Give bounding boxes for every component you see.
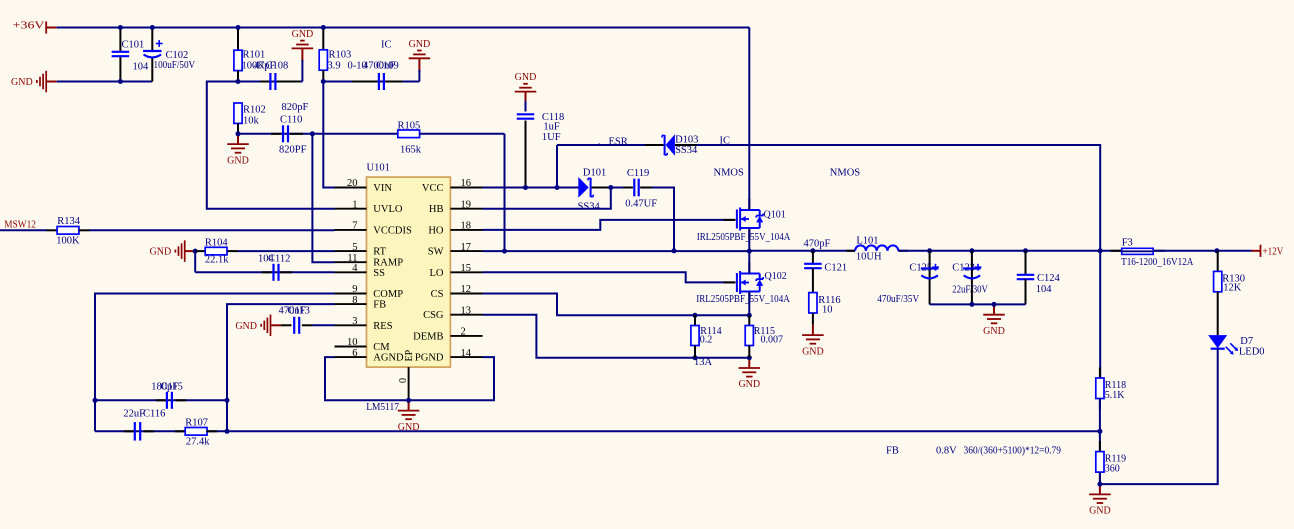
resistor R103 (319, 28, 351, 82)
wire C115 net (95, 399, 227, 401)
power port +12V (1252, 245, 1284, 258)
svg-text:T16-1200_16V12A: T16-1200_16V12A (1121, 257, 1194, 268)
junction (93, 398, 230, 434)
resistor R107 (175, 418, 217, 448)
wire Q102 drain (748, 251, 750, 273)
svg-text:22uF: 22uF (123, 409, 145, 420)
capacitor C116 (123, 409, 165, 441)
wire MSW12 (0, 229, 57, 231)
svg-text:HB: HB (429, 204, 444, 215)
junction (693, 355, 752, 360)
junction (310, 131, 315, 136)
svg-text:6: 6 (352, 348, 357, 359)
junction (118, 25, 123, 84)
label IC 2 (720, 136, 731, 147)
svg-text:10: 10 (822, 305, 833, 316)
capacitor C118 (517, 112, 565, 187)
svg-text:C108: C108 (266, 61, 289, 72)
svg-text:2: 2 (461, 327, 466, 338)
svg-text:C121: C121 (824, 263, 847, 274)
svg-text:UVLO: UVLO (373, 204, 403, 215)
svg-text:17: 17 (461, 242, 472, 253)
svg-text:IRL2505PBF_55V_104A: IRL2505PBF_55V_104A (697, 232, 791, 243)
svg-text:18: 18 (461, 221, 472, 232)
svg-text:AGND: AGND (373, 353, 404, 364)
ground GND (C118) inverted (515, 72, 537, 111)
svg-text:470pF: 470pF (804, 239, 831, 250)
wire R105 to SW (504, 134, 506, 251)
svg-text:0.47UF: 0.47UF (625, 199, 657, 210)
junction (236, 25, 241, 84)
svg-text:C101: C101 (122, 40, 145, 51)
svg-text:104: 104 (133, 61, 150, 72)
svg-text:GND: GND (409, 39, 431, 50)
wire FB (227, 304, 335, 431)
svg-text:GND: GND (802, 346, 824, 357)
svg-text:22uF/30V: 22uF/30V (952, 284, 988, 295)
svg-text:R104: R104 (205, 237, 229, 248)
svg-text:CS: CS (431, 289, 444, 300)
ground GND (R102) (227, 134, 249, 167)
svg-text:8: 8 (352, 295, 357, 306)
wire CSG (483, 315, 750, 358)
wire RT (238, 250, 335, 252)
capacitor C115 (151, 382, 186, 409)
svg-text:470uF/35V: 470uF/35V (877, 294, 919, 305)
svg-text:5.1K: 5.1K (1105, 390, 1126, 401)
U101 left pins (335, 178, 412, 363)
svg-text:13: 13 (461, 305, 472, 316)
svg-text:PGND: PGND (415, 353, 444, 364)
svg-text:820PF: 820PF (279, 145, 307, 156)
svg-text:GND: GND (235, 321, 257, 332)
capacitor C108 (254, 61, 301, 91)
svg-text:12: 12 (461, 284, 472, 295)
svg-text:GND: GND (227, 155, 249, 166)
svg-text:7: 7 (352, 221, 357, 232)
label FB calc (886, 446, 1061, 457)
svg-text:DEMB: DEMB (413, 331, 443, 342)
transistor Q101 (697, 199, 791, 244)
junction dots FB (1097, 429, 1102, 434)
label 470pF (804, 239, 831, 250)
svg-text:19: 19 (461, 199, 472, 210)
junction (1098, 248, 1220, 253)
resistor R130 (1214, 251, 1245, 335)
wire AGND-EP-PGND (325, 357, 494, 400)
svg-text:D103: D103 (675, 134, 698, 145)
U101 EP pin (398, 349, 415, 400)
svg-text:C113: C113 (288, 305, 310, 316)
svg-text:R105: R105 (398, 121, 421, 132)
capacitor C112 (258, 254, 292, 281)
svg-text:GND: GND (398, 422, 420, 433)
wire SW to L101 (749, 250, 855, 252)
wire COMP (95, 294, 335, 432)
svg-text:27.4k: 27.4k (186, 437, 210, 448)
svg-text:360: 360 (1105, 464, 1120, 475)
svg-text:820pF: 820pF (282, 102, 309, 113)
svg-text:NMOS: NMOS (714, 168, 745, 179)
capacitor C102 (143, 28, 195, 82)
wire VCC (483, 187, 580, 189)
wire C108 net (238, 81, 302, 83)
svg-text:D101: D101 (583, 167, 606, 178)
svg-text:IC: IC (381, 40, 392, 51)
svg-text:16: 16 (461, 178, 472, 189)
wire L101 to F3 (898, 250, 1121, 252)
inductor L101 (846, 235, 908, 262)
svg-text:CSG: CSG (423, 310, 444, 321)
svg-text:10k: 10k (243, 115, 260, 126)
svg-text:0: 0 (398, 378, 409, 383)
svg-text:U101: U101 (367, 163, 390, 174)
resistor R119 (1096, 441, 1126, 482)
ground GND (C109) inverted (409, 39, 431, 82)
label NMOS 2 (830, 168, 861, 179)
svg-text:Q101: Q101 (764, 209, 786, 220)
svg-text:FB: FB (373, 300, 386, 311)
svg-text:FB: FB (886, 446, 899, 457)
svg-text:C125: C125 (909, 263, 932, 274)
svg-text:5: 5 (352, 242, 357, 253)
svg-text:NMOS: NMOS (830, 168, 861, 179)
wire LO (483, 272, 736, 282)
wire D101-HB node (592, 185, 623, 190)
svg-text:R103: R103 (329, 50, 352, 61)
junction (693, 313, 752, 318)
wire R118-R119 (1099, 399, 1101, 452)
diode D103 (662, 134, 698, 156)
svg-text:GND: GND (1089, 506, 1111, 517)
ground GND (R119) (1089, 484, 1111, 516)
resistor R118 (1096, 368, 1126, 410)
wire Q101 source (748, 228, 750, 251)
resistor R105 (398, 121, 505, 156)
svg-text:3.9: 3.9 (328, 61, 341, 72)
wire F3 to +12V (1153, 250, 1251, 252)
svg-text:R102: R102 (243, 105, 266, 116)
svg-text:104: 104 (1036, 284, 1053, 295)
svg-text:+12V: +12V (1263, 247, 1284, 258)
svg-text:C112: C112 (268, 254, 290, 265)
svg-text:VCC: VCC (422, 183, 444, 194)
capacitor C113 (279, 305, 313, 333)
diode D101 (578, 167, 607, 212)
wire cap bank bottom (930, 303, 1026, 305)
wire CS (483, 294, 750, 316)
svg-text:22.1k: 22.1k (205, 255, 229, 266)
svg-text:GND: GND (11, 77, 33, 88)
svg-text:C119: C119 (627, 168, 649, 179)
LED D7 (1208, 335, 1264, 358)
wire ESR to output (675, 145, 1100, 251)
resistor R134 (56, 216, 81, 247)
svg-text:4: 4 (352, 263, 358, 274)
ground port GND (C113) (235, 315, 281, 337)
svg-text:9: 9 (352, 284, 357, 295)
svg-text:GND: GND (983, 326, 1005, 337)
capacitor C110 (271, 102, 309, 156)
svg-text:GND: GND (515, 72, 537, 83)
wire input gnd (57, 81, 153, 83)
ground GND (R115) (738, 358, 760, 391)
svg-text:14: 14 (461, 348, 472, 359)
junction (406, 398, 411, 403)
svg-text:GND: GND (292, 29, 314, 40)
svg-text:F3: F3 (1122, 238, 1133, 249)
wire SW (483, 250, 750, 252)
junction (321, 25, 326, 84)
ground port GND (R104) (150, 240, 196, 262)
wire R119 to GND (1099, 472, 1101, 484)
svg-text:SW: SW (428, 247, 444, 258)
svg-text:1UF: 1UF (542, 132, 561, 143)
svg-text:SS: SS (373, 268, 385, 279)
transistor Q102 (696, 262, 790, 305)
wire RAMP (312, 134, 334, 262)
svg-text:MSW12: MSW12 (4, 219, 36, 230)
svg-text:LED0: LED0 (1239, 347, 1265, 358)
fuse F3 (1111, 238, 1194, 268)
svg-text:R134: R134 (57, 216, 81, 227)
label ESR (598, 136, 628, 147)
net label MSW12 (4, 219, 36, 230)
capacitor C125 (877, 251, 939, 305)
capacitor C119 (623, 168, 657, 210)
svg-text:360/(360+5100)*12=0.79: 360/(360+5100)*12=0.79 (964, 446, 1062, 457)
junction (969, 302, 996, 307)
ground GND (R116) (802, 313, 824, 357)
svg-text:C124: C124 (1037, 273, 1061, 284)
svg-text:C115: C115 (161, 382, 183, 393)
svg-text:100K: 100K (56, 236, 80, 247)
svg-text:C116: C116 (143, 409, 165, 420)
junction (927, 248, 1028, 253)
svg-text:HO: HO (428, 225, 444, 236)
wire C109 net (323, 81, 419, 83)
power port +36V (13, 21, 57, 34)
label LM5117 (366, 402, 399, 413)
svg-text:0.8V: 0.8V (936, 446, 957, 457)
wire HO (483, 220, 736, 230)
ground GND (caps) (983, 304, 1005, 337)
resistor R115 (745, 315, 783, 357)
junction (810, 248, 815, 253)
wire LED to bottom (1100, 349, 1218, 484)
junction (236, 131, 241, 136)
svg-text:0.2: 0.2 (700, 335, 713, 346)
svg-text:D7: D7 (1240, 336, 1253, 347)
svg-text:LM5117: LM5117 (366, 402, 399, 413)
svg-text:R107: R107 (185, 418, 208, 429)
junction (523, 185, 560, 190)
wire +36V rail (57, 27, 750, 29)
wire SS (195, 271, 334, 273)
svg-text:VCCDIS: VCCDIS (373, 225, 412, 236)
U101 right pins (413, 178, 482, 363)
svg-text:SS34: SS34 (675, 145, 698, 156)
svg-text:10UH: 10UH (856, 252, 882, 263)
svg-text:0.007: 0.007 (761, 335, 784, 346)
svg-text:100uF/50V: 100uF/50V (154, 60, 196, 71)
junction (150, 25, 155, 30)
junction (193, 249, 198, 254)
svg-text:GND: GND (738, 379, 760, 390)
svg-text:VIN: VIN (373, 183, 392, 194)
svg-text:C110: C110 (280, 115, 302, 126)
junction (502, 249, 752, 254)
wire VCCDIS (79, 229, 335, 231)
resistor R114 (691, 315, 722, 357)
svg-text:12K: 12K (1223, 283, 1242, 294)
svg-text:RES: RES (373, 321, 392, 332)
svg-text:LO: LO (430, 268, 444, 279)
svg-text:165k: 165k (400, 145, 422, 156)
svg-text:COMP: COMP (373, 289, 403, 300)
svg-text:1: 1 (352, 199, 357, 210)
junction (672, 248, 677, 253)
capacitor C123 (952, 251, 988, 305)
wire feedback bottom (95, 430, 1100, 432)
wire C119 to SW (652, 188, 674, 251)
label 13A (694, 357, 713, 368)
svg-text:Q102: Q102 (765, 271, 787, 282)
svg-text:RT: RT (373, 247, 386, 258)
capacitor C101 (112, 28, 149, 82)
svg-text:EP: EP (404, 349, 415, 361)
label NMOS (714, 168, 745, 179)
capacitor C121 (804, 251, 847, 293)
svg-text:13A: 13A (694, 357, 713, 368)
svg-text:GND: GND (150, 247, 172, 258)
junction (1097, 482, 1102, 487)
wire RES (313, 324, 335, 326)
svg-text:20: 20 (347, 178, 358, 189)
ground GND (C108) inverted (292, 29, 314, 82)
wire Q101 drain (748, 28, 750, 211)
op-amp U101 body (367, 163, 451, 368)
ground GND (EP) (398, 400, 420, 433)
ground port GND (input) (11, 71, 57, 93)
svg-text:10: 10 (347, 337, 358, 348)
wire VIN (323, 82, 334, 188)
wire ESR (557, 144, 664, 146)
resistor R101 (234, 28, 265, 82)
svg-text:C109: C109 (376, 61, 399, 72)
label IC (381, 40, 392, 51)
svg-text:3: 3 (352, 316, 357, 327)
wire SS drop (194, 251, 196, 272)
wire C110 net (238, 133, 398, 135)
svg-text:C123: C123 (952, 263, 975, 274)
resistor R116 (809, 293, 841, 316)
svg-text:15: 15 (461, 263, 472, 274)
svg-text:+36V: +36V (13, 21, 45, 32)
svg-text:CM: CM (373, 342, 390, 353)
wire +12V to R118 (1099, 251, 1101, 378)
svg-text:R101: R101 (243, 50, 266, 61)
svg-text:IRL2505PBF_55V_104A: IRL2505PBF_55V_104A (696, 294, 790, 305)
svg-text:SS34: SS34 (578, 201, 601, 212)
capacitor C109 (348, 61, 403, 91)
wire Q102 source (748, 292, 750, 316)
svg-text:L101: L101 (856, 235, 878, 246)
capacitor C124 (1017, 251, 1061, 305)
resistor R102 (234, 103, 266, 134)
resistor R104 (195, 237, 238, 265)
wire UVLO (207, 82, 335, 209)
wire ESR riser (556, 145, 558, 188)
wire HB (483, 188, 611, 209)
